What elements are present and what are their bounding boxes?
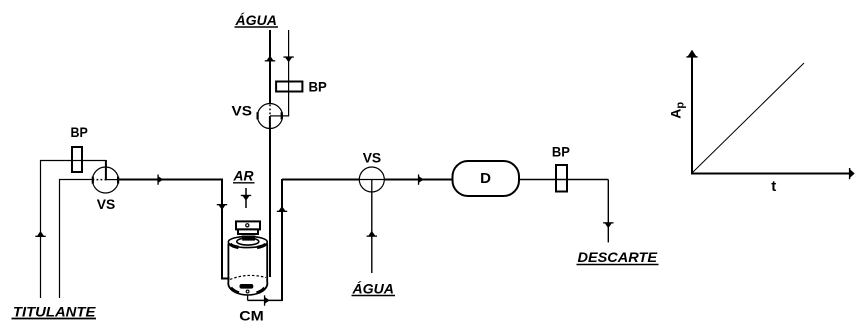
svg-text:BP: BP (552, 144, 570, 160)
liquid level dashed (230, 275, 266, 279)
wire from detector through BP to waste corner (519, 180, 608, 243)
graph x-axis (691, 173, 851, 175)
arrow down on recycle loop (283, 56, 293, 62)
arrow right before detector (418, 174, 424, 184)
neck dark fill (242, 236, 256, 242)
arrow up on y-axis (686, 50, 697, 58)
arrow right on outlet (264, 295, 270, 305)
svg-text:VS: VS (363, 149, 382, 165)
neck dark fill again on top of rim (242, 236, 255, 241)
arrow down on waste line (603, 222, 613, 228)
label AGUA (top water inlet) (234, 12, 278, 28)
wire main line to right valve and detector (282, 179, 360, 181)
svg-text:CM: CM (239, 308, 264, 324)
drain hole (246, 290, 249, 293)
svg-text:ÁGUA: ÁGUA (234, 12, 277, 28)
label AR (233, 167, 255, 183)
arrow up on water main (265, 56, 275, 62)
valve VS right (circle) (359, 167, 384, 192)
bottom shade arcs (231, 288, 239, 293)
wire water main down from AGUA (269, 30, 271, 105)
arrow up on titulante left line (35, 231, 45, 237)
arrow up on water line (367, 231, 377, 237)
outer rim ellipse (228, 236, 267, 247)
valve VS top (circle) (257, 104, 283, 129)
wire water main below valve to chamber (269, 129, 271, 278)
graph signal line (692, 63, 804, 173)
svg-text:VS: VS (232, 103, 253, 119)
arrow down on carrier drop line (217, 204, 227, 210)
wire recycle loop (right vertical + horizontal into valve) (283, 30, 289, 116)
inner rim ellipse (237, 238, 259, 245)
arrow up on riser (277, 206, 287, 212)
arrow right on carrier line (157, 174, 163, 184)
graph y-axis (691, 53, 693, 174)
wire water up into right valve (371, 192, 373, 273)
stir bar (240, 284, 254, 289)
coil BP left rectangle (72, 147, 82, 172)
body walls (228, 244, 237, 294)
arrow right on x-axis (849, 168, 855, 179)
label TITULANTE (12, 303, 97, 319)
wire carrier line from valve to chamber (119, 180, 230, 279)
svg-text:VS: VS (97, 196, 116, 212)
svg-text:t: t (771, 178, 776, 195)
valve VS left (circle) (92, 167, 120, 193)
detector D (453, 161, 520, 196)
svg-text:AR: AR (233, 167, 255, 183)
wire from top line down into valve VS left (105, 160, 107, 168)
coil BP top rectangle (276, 82, 302, 92)
wire through BP top (288, 82, 290, 92)
label Ap (rotated) (668, 102, 687, 119)
rim shade arcs (230, 244, 239, 248)
svg-text:BP: BP (71, 124, 88, 140)
arrow AR down into chamber (241, 188, 251, 208)
coil BP right rectangle (556, 165, 567, 192)
label AGUA bottom (351, 281, 395, 297)
svg-text:D: D (480, 170, 491, 187)
mixing chamber CM (228, 221, 267, 295)
label DESCARTE (577, 249, 659, 265)
svg-text:BP: BP (309, 78, 327, 94)
wire chamber outlet down right and up to main line (248, 179, 282, 301)
wire titulante right line up to valve left port (60, 180, 93, 299)
wire through BP left (72, 160, 82, 162)
svg-text:ÁGUA: ÁGUA (351, 281, 394, 297)
svg-text:DESCARTE: DESCARTE (578, 249, 658, 265)
svg-text:TITULANTE: TITULANTE (13, 303, 96, 319)
wire titulante left line up and over to valve top (41, 161, 107, 299)
cap (236, 221, 260, 229)
